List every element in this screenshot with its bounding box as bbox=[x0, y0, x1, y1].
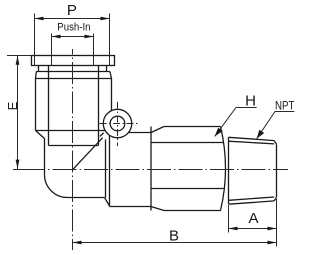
arrow Push-In left bbox=[52, 35, 61, 39]
nut bottom edge bbox=[164, 210, 221, 212]
neck bottom line bbox=[110, 206, 152, 208]
arrow Push-In right bbox=[85, 35, 94, 39]
svg-text:H: H bbox=[245, 92, 256, 109]
leader NPT line bbox=[257, 112, 295, 139]
leader H line bbox=[215, 108, 257, 137]
boss circle horizontal centerline bbox=[100, 123, 141, 125]
svg-text:B: B bbox=[169, 228, 179, 245]
neck ring right bbox=[106, 66, 108, 72]
arrow P right bbox=[101, 17, 110, 21]
nut facet line bottom bbox=[151, 188, 224, 190]
nut right face arc bbox=[221, 127, 226, 211]
arrow P left bbox=[35, 17, 44, 21]
boss notch segment bbox=[100, 133, 104, 137]
dim P line bbox=[35, 18, 110, 20]
svg-text:P: P bbox=[67, 2, 77, 19]
block chamfer left bbox=[36, 131, 45, 139]
thread root bottom bbox=[229, 197, 275, 200]
flange (push-in cap top) bbox=[32, 56, 115, 66]
svg-text:A: A bbox=[248, 210, 258, 227]
dim B line bbox=[73, 242, 277, 244]
shoulder slant right bbox=[110, 72, 112, 79]
nut bottom chamfer left bbox=[151, 207, 164, 211]
bore line right bbox=[98, 66, 100, 146]
thread crest bottom bbox=[229, 201, 275, 204]
dim A line bbox=[229, 228, 277, 230]
bore line left bbox=[48, 66, 50, 146]
arrow NPT leader bbox=[257, 130, 265, 139]
arrow E bottom bbox=[16, 160, 20, 169]
dim Push-In extension left bbox=[51, 34, 53, 67]
nut facet line top bbox=[151, 142, 224, 144]
dim A extension right bbox=[276, 199, 278, 247]
diagonal corner line bbox=[73, 138, 103, 170]
bore bottom bbox=[49, 145, 99, 147]
thread tip chamfer top bbox=[274, 141, 276, 145]
dim A extension left bbox=[228, 205, 230, 233]
body top edge bbox=[36, 78, 112, 80]
block bottom right slant bbox=[105, 198, 110, 207]
svg-text:E: E bbox=[5, 101, 20, 110]
arrow A left bbox=[229, 227, 238, 231]
neck ring left bbox=[38, 66, 40, 72]
body right side bbox=[111, 79, 113, 113]
svg-text:NPT: NPT bbox=[275, 99, 295, 113]
block corner arc bbox=[45, 175, 68, 198]
svg-text:Push-In: Push-In bbox=[57, 22, 90, 34]
block right face bbox=[105, 140, 107, 198]
boss circle outer bbox=[103, 109, 131, 137]
block bottom face bbox=[68, 197, 105, 199]
boss circle vertical centerline bbox=[117, 102, 119, 146]
dim Push-In extension right bbox=[93, 34, 95, 67]
nut top chamfer left bbox=[151, 127, 164, 133]
shoulder slant left bbox=[35, 72, 38, 79]
thread tip face bbox=[276, 144, 278, 197]
hex nut left face bbox=[150, 127, 152, 211]
washer line bbox=[36, 71, 110, 73]
thread crest top bbox=[229, 137, 275, 140]
nut top edge bbox=[164, 126, 221, 128]
neck top line bbox=[110, 132, 152, 134]
dim P extension right bbox=[109, 14, 111, 67]
dim Push-In line bbox=[52, 36, 94, 38]
arrow H leader bbox=[215, 128, 223, 137]
arrow E top bbox=[16, 56, 20, 65]
arrow B right bbox=[268, 241, 277, 245]
dim E extension top bbox=[7, 55, 32, 57]
block left face bbox=[44, 139, 46, 175]
neck step ring bbox=[109, 135, 111, 206]
thread root top bbox=[229, 141, 275, 144]
body left side bbox=[35, 79, 37, 131]
thread start edge bbox=[228, 137, 230, 204]
boss circle inner bbox=[110, 116, 125, 131]
centerline horizontal port axis bbox=[13, 169, 288, 171]
arrow A right bbox=[268, 227, 277, 231]
dim P extension left bbox=[34, 14, 36, 67]
block top face bbox=[36, 130, 106, 132]
thread tip chamfer bottom bbox=[274, 197, 276, 201]
dim E line bbox=[17, 56, 19, 169]
arrow B left bbox=[73, 241, 82, 245]
centerline vertical port axis bbox=[72, 49, 74, 250]
